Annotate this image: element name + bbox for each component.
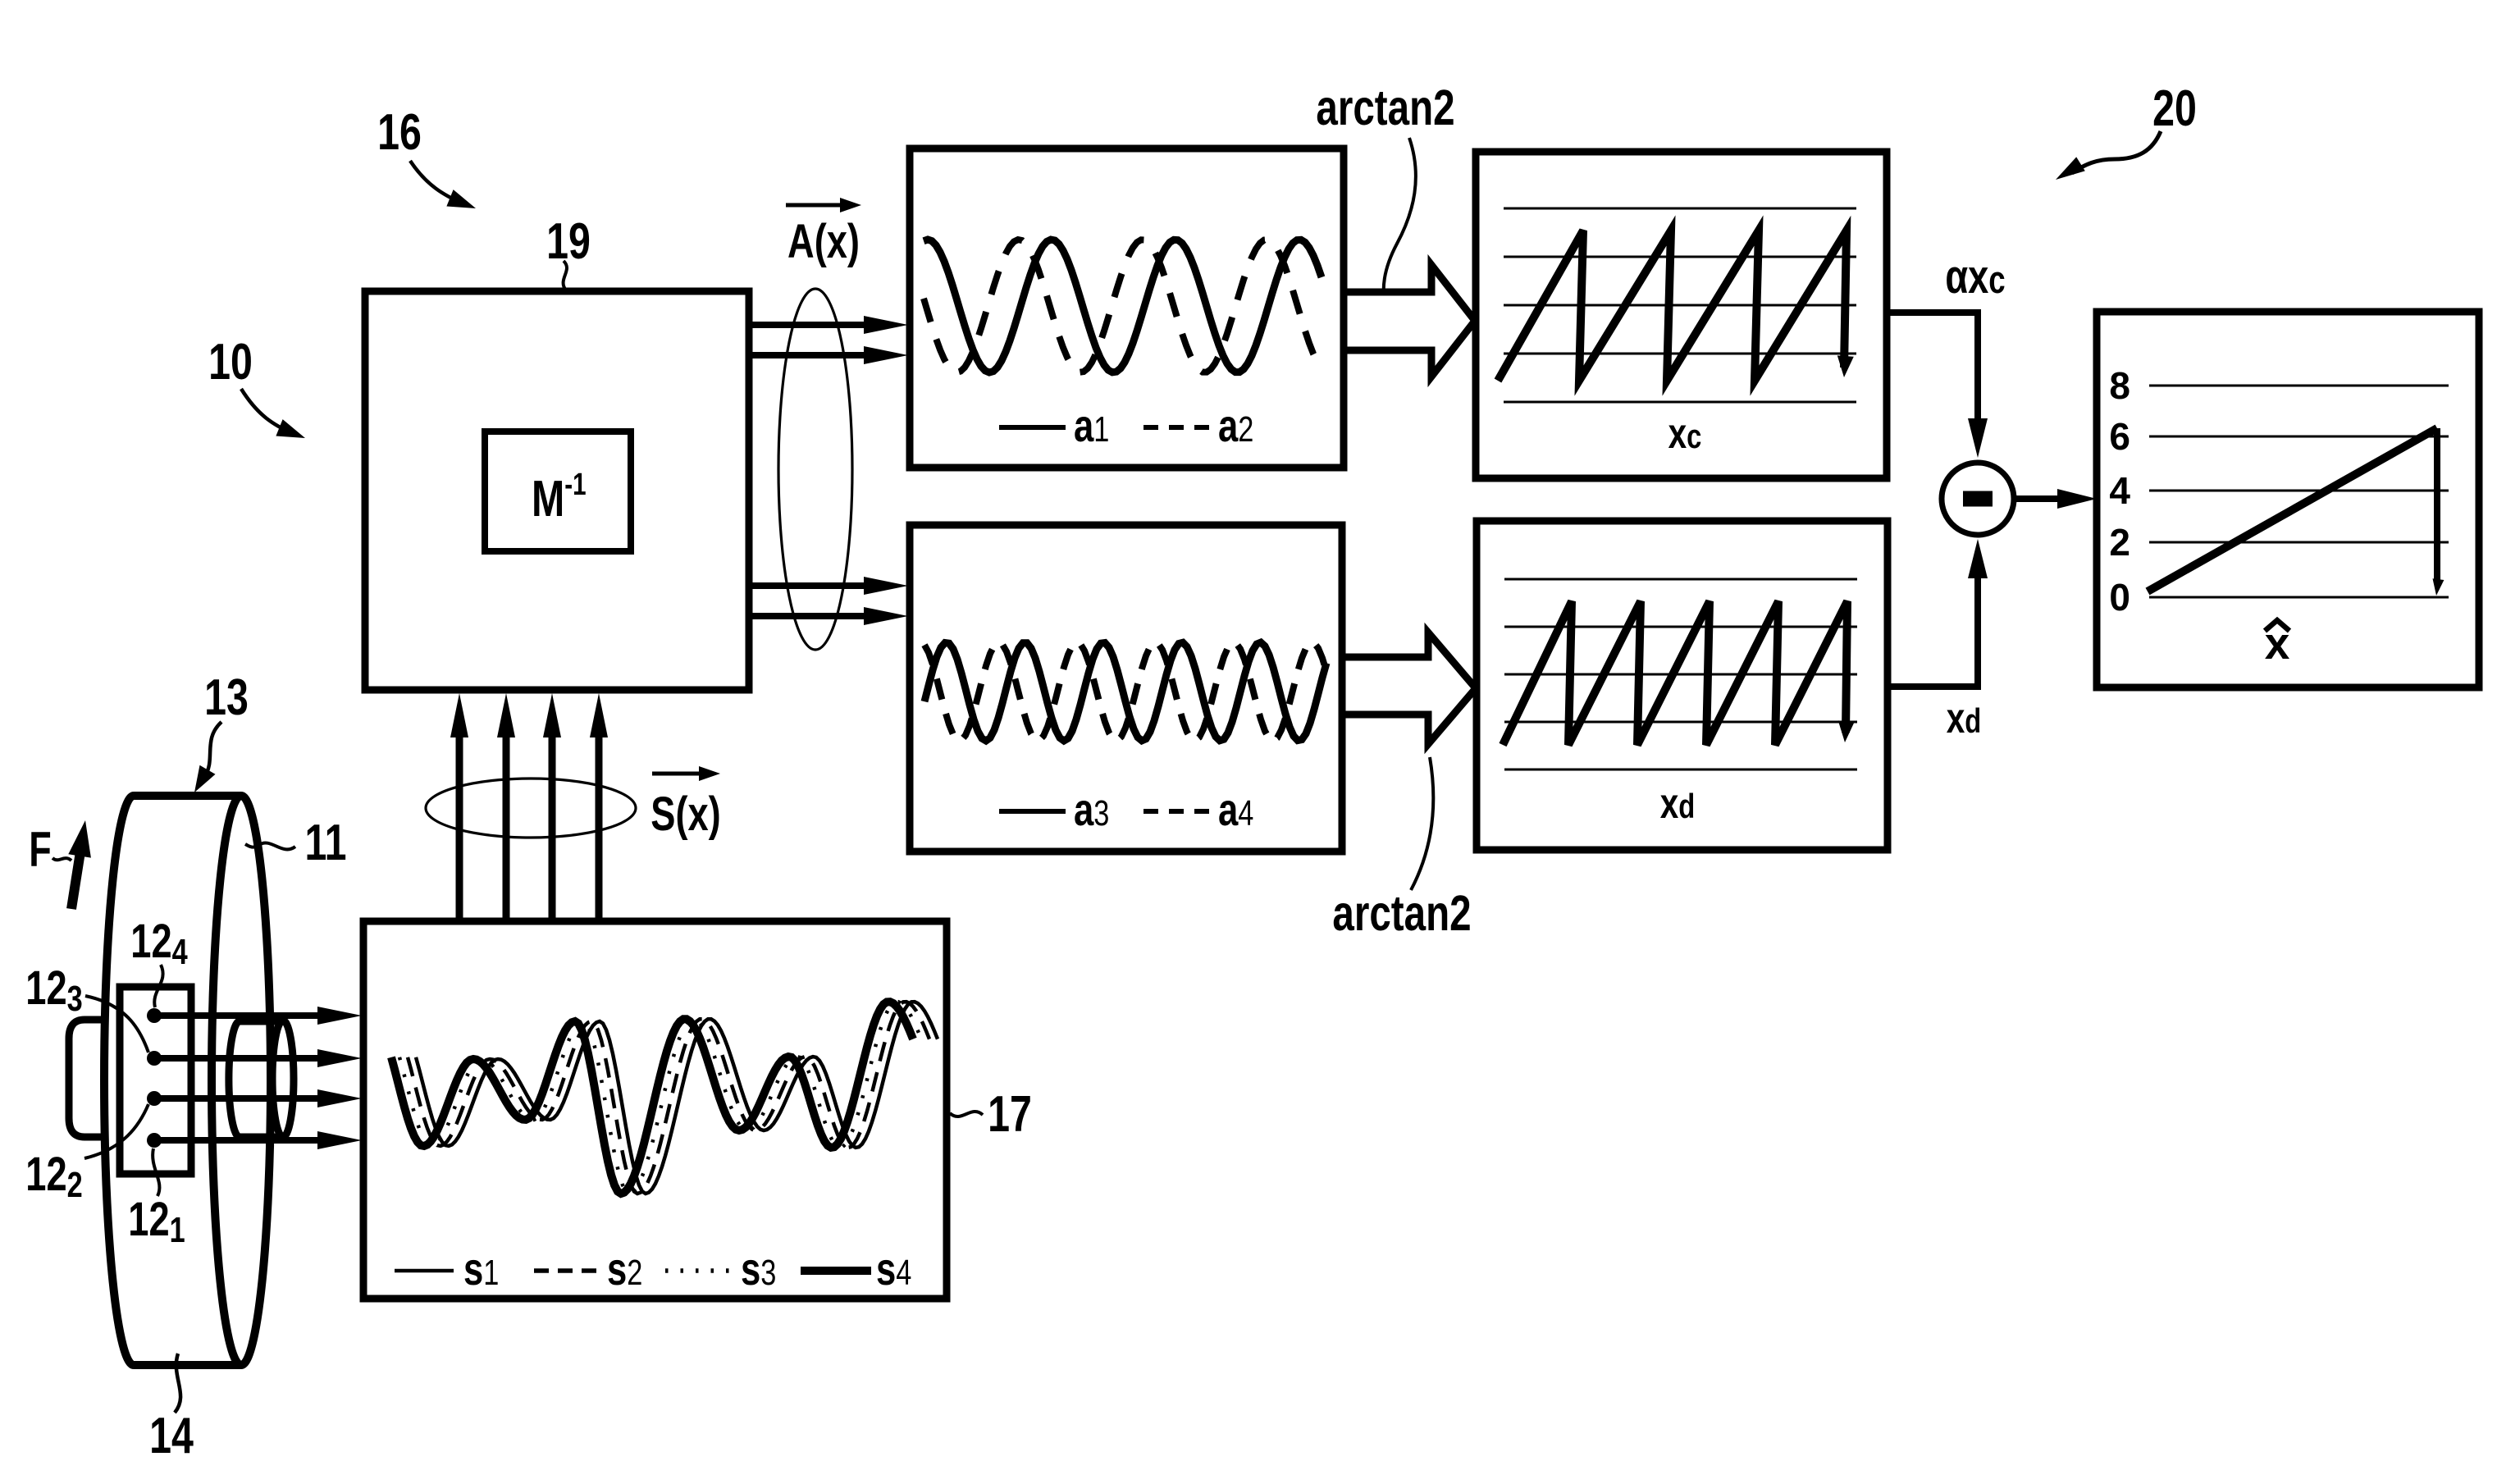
waveform s1 (thin solid): [416, 1002, 938, 1194]
svg-text:17: 17: [988, 1085, 1032, 1142]
label S(x) with vector arrow: [652, 772, 707, 776]
legend a1: [999, 425, 1066, 430]
waveform a1 (solid sine): [924, 240, 1322, 372]
box 17 (sensor signal plot): [363, 921, 947, 1299]
svg-text:14: 14: [149, 1407, 194, 1463]
leader squiggle from label 17: [950, 1112, 983, 1116]
label x-hat: [2265, 618, 2290, 669]
leader from 12_3 to second dot: [85, 996, 148, 1052]
leader arrow from label 13 to disc: [205, 722, 221, 776]
box M^-1 (inverse matrix): [485, 432, 631, 551]
label 11 reference numeral: [304, 814, 346, 870]
label 16 reference numeral: [377, 103, 422, 160]
leader from 12_1 to fourth dot: [153, 1148, 159, 1196]
sawtooth waveform Xd: [1503, 601, 1847, 745]
sensor dots 12_1..12_4: [147, 1008, 162, 1023]
ellipse around A(x) wire bundle: [778, 289, 852, 650]
svg-text:αxc: αxc: [1945, 251, 2005, 304]
sensor wire 3 to box 17: [154, 1095, 324, 1102]
subtractor circle (minus junction): [1942, 463, 2014, 535]
legend s2: [534, 1268, 596, 1273]
leader squiggle from arctan2 bottom: [1411, 757, 1433, 890]
svg-text:xd: xd: [1660, 779, 1696, 827]
svg-text:16: 16: [377, 103, 422, 160]
wire a2 from box 19 to wave box: [749, 352, 871, 358]
box Xd (sawtooth phase): [1477, 521, 1888, 850]
svg-text:xc: xc: [1668, 409, 1702, 457]
label 20 reference numeral: [2152, 80, 2197, 136]
label Xd inside box: [1660, 779, 1696, 827]
leader from 12_2 to third dot: [84, 1104, 148, 1158]
svg-text:F: F: [29, 823, 51, 878]
box a1 a2 (arcsine signals): [910, 148, 1344, 468]
waveform a3 (solid sine): [924, 642, 1326, 741]
box 19 (matrix computation unit): [365, 291, 749, 690]
svg-text:6: 6: [2109, 415, 2130, 458]
svg-text:20: 20: [2152, 80, 2197, 136]
legend s3: [665, 1268, 732, 1273]
label arctan2 (bottom): [1332, 884, 1471, 941]
svg-text:2: 2: [2109, 521, 2130, 564]
wire a3 from box 19 to wave box: [749, 582, 871, 589]
block arrow from a1a2 box to Xc box: [1344, 265, 1475, 377]
legend a3: [999, 809, 1066, 814]
leader squiggle from label 14: [175, 1354, 180, 1413]
label 13 reference numeral: [204, 669, 249, 725]
wire Xd from Xd box to subtractor: [1888, 556, 1978, 687]
svg-text:arctan2: arctan2: [1316, 79, 1454, 135]
sawtooth waveform Xc: [1498, 231, 1847, 381]
sensor wire 2 to box 17: [154, 1055, 324, 1062]
disc 11 right face (ellipse): [212, 796, 271, 1365]
sensor wire 1 to box 17: [154, 1012, 324, 1019]
label Xd on wire: [1947, 694, 1982, 742]
leader squiggle from label 11: [245, 842, 295, 849]
leader arrow from label 16: [410, 161, 464, 204]
label M^-1: [532, 468, 587, 527]
box 20 (estimated position output): [2097, 312, 2479, 687]
leader squiggle from arctan2 top: [1384, 138, 1416, 310]
vertical wire s3 from box 17 to box 19: [549, 734, 556, 921]
label 12_4: [130, 916, 187, 972]
vertical wire s1 from box 17 to box 19: [456, 734, 463, 921]
leader squiggle from label 19 to box: [564, 261, 567, 290]
svg-text:0: 0: [2109, 576, 2130, 619]
svg-text:xd: xd: [1947, 694, 1982, 742]
gridlines in box Xd: [1504, 578, 1857, 581]
wire a4 from box 19 to wave box: [749, 613, 871, 619]
leader arrow from label 20: [2072, 131, 2161, 173]
wire from subtractor to box 20: [2014, 495, 2079, 502]
svg-text:10: 10: [208, 333, 253, 390]
waveform s2 (dashed): [408, 1002, 929, 1194]
svg-text:8: 8: [2109, 364, 2130, 407]
svg-text:A(x): A(x): [787, 216, 860, 269]
box Xc (sawtooth phase): [1476, 152, 1887, 478]
waveform a4 (dashed sine): [924, 642, 1326, 741]
waveform s4 (thick solid): [391, 1002, 913, 1194]
svg-text:S(x): S(x): [650, 788, 720, 842]
label Xc inside box: [1668, 409, 1702, 457]
wire alpha-Xc from Xc box to subtractor: [1887, 313, 1978, 441]
svg-text:13: 13: [204, 669, 249, 725]
vertical wire s2 from box 17 to box 19: [503, 734, 510, 921]
svg-text:4: 4: [2109, 469, 2130, 512]
sensor array box 12: [120, 987, 191, 1174]
leader from 12_4 to first dot: [154, 965, 162, 1007]
label 14 reference numeral: [149, 1407, 194, 1463]
ellipse around S(x) wire bundle: [426, 779, 636, 838]
waveform a2 (dashed sine): [924, 240, 1322, 372]
ramp curve x-hat: [2148, 428, 2437, 591]
legend s4: [801, 1267, 871, 1275]
gridlines in box Xc: [1504, 208, 1856, 210]
box a3 a4 (arcsine signals): [910, 525, 1342, 852]
legend a4: [1144, 809, 1210, 814]
label F with arrow (motion direction): [29, 823, 51, 878]
label 12_2: [25, 1148, 82, 1205]
shaft stub 14 on left: [69, 1020, 107, 1137]
block arrow from a3a4 box to Xd box: [1342, 632, 1476, 744]
label 19 reference numeral: [546, 212, 591, 269]
wire a1 from box 19 to wave box: [749, 322, 871, 328]
label alpha-Xc: [1945, 251, 2005, 304]
label A(x) with vector arrow: [786, 203, 848, 208]
svg-text:11: 11: [304, 814, 346, 870]
vertical wire s4 from box 17 to box 19: [596, 734, 603, 921]
disc 11 top and bottom edges: [134, 792, 241, 800]
svg-text:arctan2: arctan2: [1332, 884, 1471, 941]
svg-text:19: 19: [546, 212, 591, 269]
gridlines in box 20: [2149, 385, 2449, 387]
sensor wire 4 to box 17: [154, 1137, 324, 1144]
label 12_3: [25, 962, 82, 1019]
label arctan2 (top): [1316, 79, 1454, 135]
disc 11 left face arc: [104, 796, 134, 1365]
label 17 reference numeral: [988, 1085, 1032, 1142]
legend a2: [1144, 425, 1210, 430]
waveform s3 (dotted): [399, 1002, 921, 1194]
label 12_1: [128, 1194, 185, 1250]
leader arrow from label 10: [241, 389, 294, 434]
legend s1: [395, 1269, 454, 1273]
hub cylinder on disc face: [240, 1018, 283, 1025]
label 10 reference numeral: [208, 333, 253, 390]
